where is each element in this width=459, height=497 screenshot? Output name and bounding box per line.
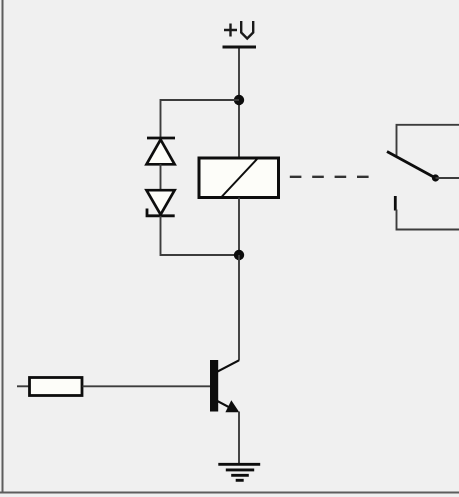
panel left border — [2, 0, 4, 493]
label +U — [224, 21, 253, 39]
relay coil K1 (box) — [199, 158, 279, 198]
diode D1 (triangle, pointing up) — [147, 140, 175, 165]
diode D1 (cathode bar) — [147, 137, 175, 140]
wire: +U bar to relay coil top (through node A) — [238, 49, 240, 159]
relay contact: lower fixed contact stub — [394, 196, 397, 211]
zener diode D2 (bent cathode bar) — [147, 209, 175, 216]
transistor Q1 emitter lead — [217, 401, 233, 410]
wire: resistor to transistor base — [83, 385, 211, 387]
wire: node A to diode branch top, down to D1 — [161, 100, 240, 139]
panel bottom border — [0, 492, 459, 494]
ground — [218, 464, 260, 480]
transistor Q1 collector lead — [217, 360, 239, 372]
mechanical link (dashed) between coil and contact — [290, 176, 369, 178]
relay contact: common pole dot — [432, 174, 439, 181]
node A junction dot — [234, 95, 244, 105]
relay coil K1 (diagonal) — [221, 158, 258, 198]
resistor R1 — [30, 378, 83, 396]
wire: lower contact to right edge — [397, 210, 459, 230]
wire: input stub left of resistor — [17, 385, 29, 387]
power rail +U bar — [223, 46, 257, 49]
wire: D2 down and right to node B — [161, 216, 240, 255]
wire: emitter to ground — [238, 412, 240, 465]
transistor Q1 base bar — [210, 360, 218, 412]
relay contact: top feed wire — [397, 125, 459, 157]
relay contact: movable arm — [387, 152, 436, 179]
node B junction dot — [234, 250, 244, 260]
zener diode D2 (triangle, pointing down) — [147, 190, 175, 214]
wire: common pole to right edge — [436, 177, 459, 179]
wire: relay coil bottom to node B — [238, 198, 240, 256]
wire: node B to transistor collector — [238, 255, 240, 361]
transistor Q1 emitter arrow — [225, 400, 239, 412]
wire: between D1 and D2 — [160, 164, 162, 191]
